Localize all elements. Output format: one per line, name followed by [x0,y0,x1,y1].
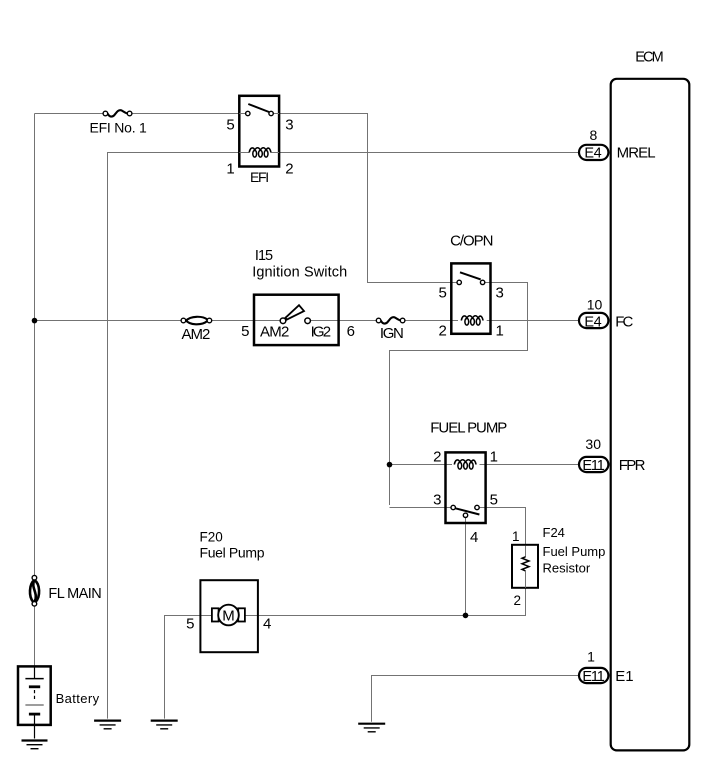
battery plate long + [25,678,43,680]
svg-text:3: 3 [496,285,504,302]
svg-text:4: 4 [263,615,271,632]
connector E4 pin 8 MREL [579,127,656,162]
fuse AM2 [181,317,212,325]
battery plate short - [29,713,40,716]
ignition switch lever [285,305,304,319]
EFI relay coil [249,148,271,157]
svg-text:2: 2 [433,448,441,465]
svg-text:EFI: EFI [250,169,269,185]
svg-text:5: 5 [438,285,446,302]
svg-text:FL MAIN: FL MAIN [48,586,101,602]
svg-text:AM2: AM2 [182,326,211,343]
relay FUEL PUMP [433,448,498,546]
wire motor internal stubs [200,615,258,617]
ground G1 (EFI relay coil) [94,721,121,729]
svg-text:E4: E4 [584,146,601,162]
svg-text:I15: I15 [255,248,273,264]
svg-text:E11: E11 [582,669,605,685]
battery plate short - [29,685,40,688]
svg-text:FPR: FPR [619,457,646,474]
wire EFI coil stubs [239,152,279,154]
FUEL PUMP switch arm [455,508,479,514]
svg-text:AM2: AM2 [260,324,289,341]
svg-text:5: 5 [241,323,249,340]
wire AM2 fuse to ignition switch [212,320,281,322]
svg-text:8: 8 [590,127,598,143]
svg-text:6: 6 [347,323,355,340]
C/OPN coil [461,316,483,325]
svg-text:3: 3 [285,117,293,134]
wire motor pin5 to ground G2 [165,616,201,719]
ground G2 (fuel pump motor) [151,721,178,729]
svg-text:1: 1 [496,323,504,340]
wire EFI switch stubs [239,113,279,115]
wire IG2 to IGN fuse [310,320,377,322]
wire main left vertical upper [34,114,36,576]
svg-text:1: 1 [226,161,234,178]
wire F24 pin2 down and left to motor row [258,572,526,616]
motor brush right [238,608,245,621]
resistor F24 [512,529,538,608]
svg-text:30: 30 [585,436,601,452]
svg-text:3: 3 [433,492,441,509]
FUEL PUMP switch contacts [451,505,455,509]
svg-text:5: 5 [490,492,498,509]
C/OPN switch contacts [457,280,461,284]
wire IGN fuse to C/OPN pin2 coil [405,320,458,322]
svg-text:Battery: Battery [56,691,100,706]
ignition switch contact AM2 [280,318,286,324]
fusible link FL MAIN [30,575,39,606]
svg-text:FUEL PUMP: FUEL PUMP [430,419,507,436]
svg-text:F24: F24 [543,525,565,540]
svg-text:5: 5 [186,615,194,632]
battery cell dashed link [34,690,36,701]
svg-text:M: M [222,607,235,624]
ECM block [611,79,690,751]
wire battery to ground G4 [34,714,36,738]
svg-text:2: 2 [438,323,446,340]
wire FP pin1 coil to FPR [480,464,579,466]
wire F24 internal bottom [525,571,527,588]
svg-text:2: 2 [513,593,521,608]
wire battery row A left segment [35,113,104,115]
fuse EFI No. 1 [103,110,132,116]
wire FP pin5 to F24 pin1 [479,508,525,558]
svg-text:1: 1 [490,448,498,465]
EFI relay switch contacts [246,111,250,115]
wire C/OPN pin1 to FC [487,320,579,322]
svg-text:EFI No. 1: EFI No. 1 [90,119,148,135]
wire branch to FP pin3 [390,507,452,509]
wire EFI pin3 to C/OPN pin5 [273,114,457,283]
wire E1 row to ground G3 [372,676,579,722]
svg-text:C/OPN: C/OPN [450,233,493,250]
svg-text:5: 5 [226,117,234,134]
wire battery row A right segment to EFI pin 5 [132,113,246,115]
fuse IGN [376,317,405,323]
wire EFI pin2 to MREL [273,152,578,154]
connector E4 pin 10 FC [579,296,634,330]
wire C/OPN pin3 down to fuel pump relay branch [390,283,528,506]
EFI relay switch arm [248,104,269,112]
ignition switch contact IG2 [305,318,311,324]
junction dot motor row [463,613,469,619]
wire F24 internal top [525,546,527,557]
svg-text:E4: E4 [584,314,601,330]
wire AM2 row from junction to fuse [35,320,182,322]
C/OPN switch arm [460,272,481,279]
svg-text:2: 2 [285,161,293,178]
svg-text:F20: F20 [200,530,223,545]
junction dot FP coil branch [387,462,393,468]
svg-text:MREL: MREL [617,145,656,162]
svg-text:IGN: IGN [380,325,404,342]
svg-text:ECM: ECM [635,49,663,65]
battery [18,666,51,738]
F24 resistor zigzag [522,557,529,571]
wire battery terminal top [34,666,36,678]
motor F20 fuel pump [186,580,271,652]
svg-text:E11: E11 [582,458,605,474]
wire FP pin4 down to motor row junction [465,518,467,616]
switch I15 ignition [241,295,355,345]
ground G3 (E1) [358,724,385,732]
relay EFI [226,96,293,185]
svg-text:1: 1 [512,529,520,544]
battery plate long + [25,704,43,706]
svg-text:Ignition Switch: Ignition Switch [252,264,347,280]
FUEL PUMP coil [454,460,476,469]
svg-text:Resistor: Resistor [543,560,591,575]
svg-text:4: 4 [470,529,478,546]
wire EFI pin1 to ground G1 [108,153,246,719]
junction dot AM2 branch [32,318,38,324]
svg-text:IG2: IG2 [311,324,332,341]
relay C/OPN [438,263,503,339]
svg-text:Fuel Pump: Fuel Pump [543,544,606,559]
svg-text:Fuel Pump: Fuel Pump [200,545,265,561]
wire branch junction to FP coil pin2 [390,464,453,466]
svg-text:E1: E1 [615,668,633,685]
motor circle [218,605,239,626]
svg-text:10: 10 [587,296,603,312]
connector E11 pin 1 E1 [579,649,634,685]
wire main left vertical lower (below FL MAIN) [34,606,36,666]
motor brush left [212,608,219,621]
svg-text:1: 1 [587,649,595,665]
connector E11 pin 30 FPR [579,436,646,474]
svg-text:FC: FC [615,314,633,331]
ground G4 battery [22,741,48,749]
